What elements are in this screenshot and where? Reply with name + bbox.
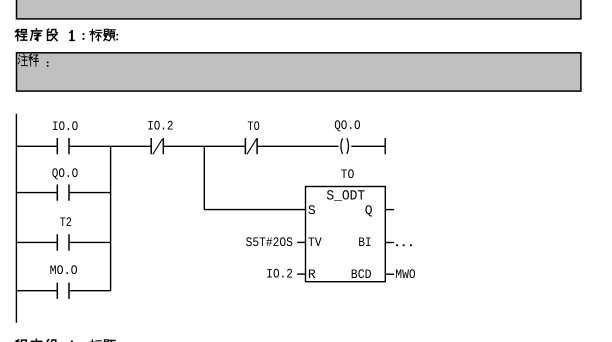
TV input stub <box>297 241 305 243</box>
BCD output stub <box>385 273 394 275</box>
R input stub <box>297 273 305 275</box>
colon after 1 (bold) <box>83 33 85 40</box>
colon after 注释 <box>47 62 49 67</box>
hanzi 程 (bold) <box>15 29 27 40</box>
wire rung4 segment rail to M0.0 <box>16 290 57 292</box>
network 1 gray title bar <box>17 0 581 19</box>
comment text "注释:" <box>18 54 48 66</box>
hanzi 序 (bold) <box>31 29 42 41</box>
svg-text:TV: TV <box>308 235 322 250</box>
svg-text:Q: Q <box>365 203 373 218</box>
digit 1 (bold) <box>70 31 75 40</box>
wire rung2 segment Q0.0 to junction <box>69 192 111 194</box>
hanzi 注 <box>18 54 27 65</box>
contact Q0.0 (NO) branch <box>57 185 69 201</box>
wire rung1 segment coil to right terminal <box>351 145 385 147</box>
svg-text:IO.2: IO.2 <box>147 119 173 134</box>
contact T2 (NO) branch <box>57 234 69 250</box>
hanzi 标 <box>90 29 102 41</box>
wire rung1 segment I0.2 to T0 <box>163 145 245 147</box>
timer box U: S_ODT T0 <box>306 187 386 282</box>
network 2 heading (partially visible at bottom) <box>15 339 118 342</box>
svg-text:TO: TO <box>341 167 355 182</box>
wire rung1 segment T0 to coil <box>257 145 338 147</box>
network heading text "程序段 1 : 标题:" <box>15 29 118 41</box>
junction branch vertical (parallel contacts merge) <box>110 146 112 290</box>
contact I0.0 (NO) <box>57 138 69 154</box>
junction drop to timer S input <box>203 146 205 209</box>
svg-text:QO.O: QO.O <box>52 166 79 181</box>
hanzi 段 (bold) <box>48 29 58 40</box>
svg-text:MWO: MWO <box>395 267 416 282</box>
svg-text:BI: BI <box>358 235 371 250</box>
contact T0 (NC) <box>245 138 257 154</box>
svg-text:MO.O: MO.O <box>50 263 78 278</box>
colon after 标题 <box>116 34 118 40</box>
comment gray box <box>17 53 581 91</box>
wire rung1 segment rail to I0.0 <box>16 145 57 147</box>
coil Q0.0 <box>341 138 349 154</box>
ladder wires <box>16 114 394 323</box>
contact I0.2 (NC) <box>151 138 163 154</box>
wire rung2 segment rail to Q0.0 <box>16 192 57 194</box>
svg-text:TO: TO <box>247 119 260 134</box>
Q output stub <box>385 209 394 211</box>
hanzi 释 <box>29 54 39 66</box>
hanzi 题 <box>104 29 115 40</box>
svg-text:S_ODT: S_ODT <box>326 188 365 204</box>
svg-text:QO.O: QO.O <box>334 118 361 133</box>
svg-text:S: S <box>308 203 316 218</box>
right terminal bar rung1 <box>384 138 386 154</box>
wire rung3 segment rail to T2 <box>16 241 57 243</box>
svg-text:S5T#2OS: S5T#2OS <box>246 235 293 250</box>
svg-text:IO.O: IO.O <box>52 119 79 134</box>
svg-text:T2: T2 <box>60 215 72 230</box>
wire rung1 segment I0.0 to I0.2 <box>69 145 151 147</box>
contact M0.0 (NO) branch <box>57 283 69 299</box>
svg-text:BCD: BCD <box>351 267 372 282</box>
ellipsis on BI output <box>396 244 412 246</box>
BI output stub <box>385 242 394 244</box>
wire rung3 segment T2 to junction <box>69 241 111 243</box>
svg-text:IO.2: IO.2 <box>266 267 293 282</box>
wire to S pin of timer <box>204 209 305 211</box>
svg-text:R: R <box>308 267 316 282</box>
wire rung4 segment M0.0 to junction <box>69 290 111 292</box>
left power rail <box>15 114 17 323</box>
